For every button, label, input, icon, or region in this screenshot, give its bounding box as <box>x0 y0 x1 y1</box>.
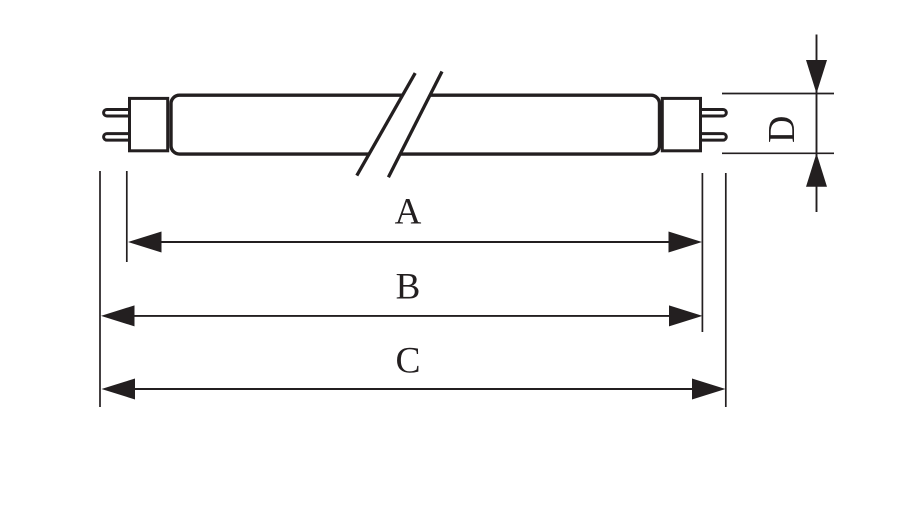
right pin bottom <box>700 134 727 141</box>
arrowhead D bottom <box>806 153 827 187</box>
arrowhead B right <box>669 305 703 326</box>
D dimension vertical line <box>816 35 818 213</box>
extension line right inner (cap face) <box>701 173 703 332</box>
extension line left outer (pin tips) <box>99 171 101 407</box>
arrowhead D top <box>806 60 827 94</box>
left pin bottom <box>104 134 131 141</box>
left pin top <box>104 109 131 116</box>
svg-text:A: A <box>395 192 422 233</box>
svg-text:C: C <box>395 340 420 381</box>
arrowhead B left <box>101 305 135 326</box>
svg-text:B: B <box>396 266 421 307</box>
arrowhead A right <box>669 232 703 253</box>
dimension line B <box>128 315 676 317</box>
lamp tube glass body <box>171 95 660 154</box>
svg-text:D: D <box>761 116 803 143</box>
arrowhead A left <box>128 232 162 253</box>
left end cap <box>130 98 168 150</box>
right end cap <box>662 98 700 150</box>
break gap (white) over tube <box>357 72 442 178</box>
arrowhead C left <box>102 379 136 400</box>
D extension line bottom <box>722 152 834 154</box>
extension line left inner (cap face) <box>126 171 128 262</box>
break line right <box>388 72 442 178</box>
dimension line A <box>155 241 675 243</box>
extension line right outer (pin tips) <box>725 173 727 407</box>
D extension line top <box>722 93 834 95</box>
right pin top <box>700 109 727 116</box>
dimension line C <box>129 388 699 390</box>
break line left <box>357 73 415 176</box>
arrowhead C right <box>692 379 726 400</box>
